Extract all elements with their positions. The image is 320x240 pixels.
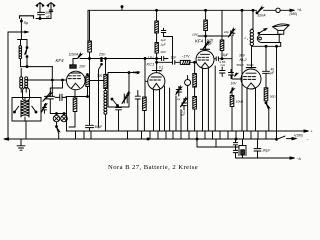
resistor R12: [204, 9, 208, 45]
svg-text:KL2: KL2: [240, 57, 248, 62]
variable capacitor C3a: [43, 92, 55, 101]
wire left rail: [7, 32, 9, 139]
switch S4: [111, 98, 118, 106]
wire grid feed: [51, 67, 53, 97]
label 25V: [98, 53, 106, 57]
label 1uF det: [177, 97, 181, 101]
label 40uF: [271, 68, 275, 76]
resistor R10: [264, 88, 268, 101]
label 32mA: [257, 13, 266, 17]
resistor R8: [193, 97, 197, 132]
label 30V: [239, 53, 246, 57]
antenna A1: [36, 3, 44, 13]
antenna A2: [47, 3, 55, 19]
label 100pF: [133, 70, 141, 74]
speaker driver link: [280, 43, 282, 47]
resistor R5b: [155, 43, 158, 73]
label C9 1uF: [171, 56, 177, 60]
svg-text:µF: µF: [182, 113, 186, 117]
label 0,1b: [181, 110, 186, 117]
capacitor C9 1uF: [173, 60, 181, 64]
bus terminal tick: [121, 6, 123, 11]
wire screen line: [80, 58, 157, 60]
label 10V: [79, 65, 86, 69]
label minus: [307, 138, 309, 142]
svg-text:10µ: 10µ: [224, 30, 229, 34]
wire jack top: [50, 113, 66, 116]
tube V1 bias resistor R11: [69, 90, 77, 127]
label 1uF r5b: [160, 42, 167, 46]
label 0,1uF: [159, 66, 164, 74]
switch S6: [258, 29, 267, 35]
switch S8: [276, 136, 296, 140]
resistor R3: [66, 74, 89, 98]
svg-text:(180): (180): [290, 12, 298, 16]
coil L3 basket: [21, 98, 29, 121]
label C16 30uF: [263, 149, 272, 153]
label R2 300: [97, 73, 102, 77]
switch S1 band: [25, 40, 28, 67]
switch S7: [256, 7, 263, 14]
ground bus: [4, 138, 277, 140]
capacitor C20a: [233, 139, 237, 150]
capacitor C8: [157, 57, 168, 61]
meter M1: [264, 8, 291, 12]
coil L2 core: [23, 88, 30, 102]
capacitor C17 arrow: [203, 41, 210, 49]
tube V4 KL2: [241, 68, 261, 89]
svg-text:mA: mA: [221, 63, 226, 67]
svg-text:−A: −A: [297, 157, 302, 161]
node tuned top: [21, 66, 53, 68]
svg-text:Nora B 27, Batterie, 2 Krei: Nora B 27, Batterie, 2 Kreise: [108, 164, 198, 171]
svg-text:KC1: KC1: [147, 62, 155, 67]
wire V3 screen line: [198, 35, 229, 37]
label R10: [270, 95, 276, 99]
label 17V: [148, 56, 155, 60]
wire V1 anode: [85, 80, 104, 82]
grid resistor R4: [143, 59, 148, 132]
speaker field box: [257, 35, 280, 43]
wire output link: [252, 45, 281, 47]
transformer T1 primary: [20, 69, 23, 93]
label -A: [297, 157, 302, 161]
wire hv right: [252, 9, 254, 29]
resistor R8b: [193, 61, 197, 96]
label switch Sp: [24, 21, 29, 25]
transformer T1 secondary: [25, 77, 28, 92]
label 10u: [224, 30, 229, 34]
label 10V v3: [192, 32, 198, 36]
svg-text:300: 300: [97, 73, 102, 77]
switch S5: [265, 102, 270, 131]
wire cap feed: [50, 80, 62, 96]
svg-text:1µ: 1µ: [177, 97, 181, 101]
svg-text:Sp: Sp: [24, 21, 29, 25]
svg-text:17V: 17V: [148, 56, 155, 60]
label C4 50uF: [95, 125, 103, 129]
label 0,05uF: [207, 38, 213, 46]
jack J1a: [53, 115, 60, 122]
trimmer capacitor C2: [41, 103, 47, 113]
wires below V4: [247, 88, 256, 131]
resistor R2 300: [104, 58, 107, 89]
trimmer capacitor C19: [228, 29, 235, 38]
label plus: [311, 130, 313, 134]
svg-text:50Ω: 50Ω: [270, 95, 276, 99]
label Rmax a: [237, 63, 245, 67]
label V2 KC1: [147, 62, 155, 67]
capacitor C7: [116, 108, 122, 132]
wire -A: [243, 156, 295, 160]
label V4 KL2: [240, 57, 248, 62]
top bus: [88, 10, 257, 43]
svg-text:+: +: [311, 130, 313, 134]
wire cluster link: [50, 97, 66, 131]
svg-text:1µF: 1µF: [161, 38, 166, 42]
hv bus: [67, 130, 309, 132]
wires detector to bus: [154, 86, 188, 131]
resistor R9: [230, 88, 234, 131]
svg-text:10V: 10V: [231, 82, 238, 86]
resistor R7: [220, 10, 224, 59]
svg-text:~17V: ~17V: [182, 55, 191, 59]
svg-text:+(180): +(180): [294, 133, 303, 137]
capacitor C11: [220, 67, 226, 77]
switch S3: [56, 122, 60, 139]
variable capacitor C14: [176, 86, 182, 96]
svg-text:1µF: 1µF: [171, 56, 177, 60]
capacitor C4 50uF: [86, 125, 94, 131]
label +(180): [294, 133, 303, 137]
tube V2 KC1: [148, 71, 165, 90]
label (180): [290, 12, 298, 16]
svg-text:−: −: [307, 138, 309, 142]
switch S2b: [32, 106, 37, 113]
wires below V3: [203, 66, 216, 131]
capacitor C12: [229, 70, 238, 79]
resistor R1: [88, 10, 92, 58]
tube V3 KF4: [196, 49, 214, 68]
wire V1 top cap: [73, 53, 82, 64]
wire KL2 anode: [251, 47, 253, 68]
label V1 KF4: [56, 58, 65, 63]
variable capacitor C5: [122, 92, 130, 103]
label 0,55mA: [220, 60, 226, 67]
svg-text:50µF: 50µF: [133, 70, 141, 74]
switch Sp arrow: [8, 31, 28, 33]
jack box J3: [197, 139, 246, 156]
svg-text:50µF: 50µF: [95, 125, 103, 129]
wire loop2 to bus: [137, 107, 139, 131]
label 4uF: [223, 53, 229, 57]
resistor R6 50k: [180, 60, 196, 64]
svg-text:10V: 10V: [79, 65, 86, 69]
label V3 KF4: [195, 39, 204, 44]
capacitor C10: [214, 57, 222, 61]
capacitor C6: [135, 91, 140, 108]
wire T1 tap grid: [28, 79, 67, 81]
svg-text:KF4: KF4: [195, 39, 204, 44]
label Rmax b: [247, 63, 255, 67]
jack J1b: [61, 115, 68, 122]
bus comb ticks: [76, 131, 267, 140]
capacitor C16 30uF: [254, 139, 261, 158]
wire to KL2 grid: [222, 36, 242, 79]
svg-text:30µF: 30µF: [263, 149, 272, 153]
svg-text:µF: µF: [271, 71, 275, 75]
wire output drop: [276, 46, 278, 139]
svg-text:10V: 10V: [160, 50, 166, 54]
svg-text:10V: 10V: [192, 32, 198, 36]
wire loop to bus: [25, 121, 27, 139]
svg-text:µF: µF: [159, 69, 163, 73]
capacitor C1 200pF: [38, 12, 45, 18]
transformer T2 primary: [250, 29, 253, 47]
caption: [108, 164, 198, 171]
ground: [17, 139, 25, 150]
wire screen decoupling: [89, 59, 91, 126]
capacitor C3c: [55, 94, 66, 100]
label 110mA: [69, 52, 79, 56]
svg-text:4µF: 4µF: [223, 53, 229, 57]
label ~17V: [182, 55, 191, 59]
wire hv left: [241, 9, 243, 131]
capacitor C13 arrow: [180, 98, 187, 110]
label 10k: [236, 100, 244, 104]
svg-text:25V: 25V: [98, 53, 106, 57]
tube V1 KF4: [67, 65, 86, 90]
wire af line: [157, 61, 173, 63]
capacitor C20b: [233, 150, 242, 158]
coil L1: [18, 40, 28, 67]
svg-text:10kΩ: 10kΩ: [236, 100, 244, 104]
contact pair: [99, 59, 103, 128]
svg-text:32mA: 32mA: [257, 13, 266, 17]
resistor R5a: [155, 9, 159, 42]
jack J2: [185, 76, 191, 90]
wire coil feed: [20, 18, 22, 39]
speaker LS: [273, 24, 290, 34]
svg-text:50kΩ: 50kΩ: [237, 63, 245, 67]
svg-text:110mA: 110mA: [69, 52, 79, 56]
wire bracket: [20, 16, 34, 18]
capacitor C15 40uF: [263, 46, 270, 88]
tuned loop box: [12, 98, 41, 122]
label C1 200pF: [45, 11, 51, 19]
coil L4: [104, 89, 107, 132]
tuned loop 2 box: [108, 72, 139, 107]
wire antenna node: [36, 18, 51, 20]
label 10V r5b: [160, 50, 166, 54]
svg-text:+A: +A: [297, 8, 302, 12]
capacitor C18 1uF: [161, 28, 172, 60]
switch S2a: [14, 106, 19, 113]
svg-text:KF4: KF4: [56, 58, 65, 63]
label 10V kl2: [231, 82, 238, 86]
label +A: [297, 8, 302, 12]
svg-text:50kΩ: 50kΩ: [247, 63, 255, 67]
label C18 1uF: [161, 38, 166, 42]
label Ls: [245, 36, 250, 41]
terminal +A: [290, 9, 295, 11]
